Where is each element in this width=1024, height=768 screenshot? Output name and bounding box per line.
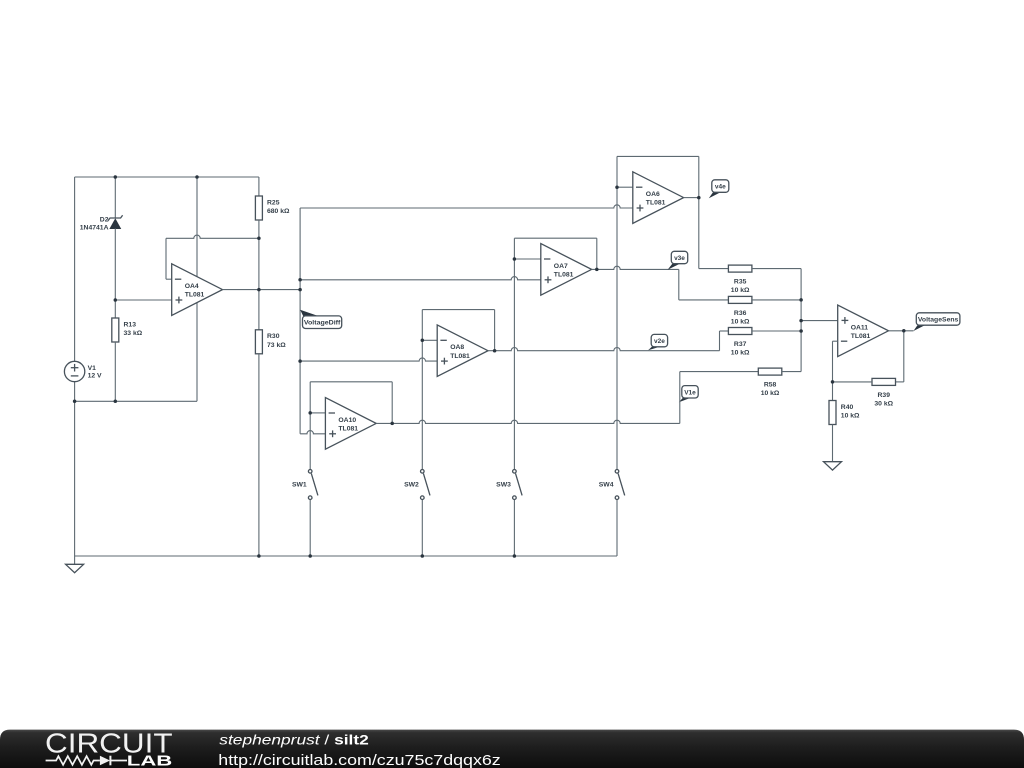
wire switch to rail [616,500,618,557]
zener diode D2 [108,215,123,221]
resistor R37 [728,328,752,335]
wire R58 to node [782,371,801,373]
svg-text:10 kΩ: 10 kΩ [841,412,860,419]
junction [73,400,77,404]
svg-text:SW1: SW1 [292,481,307,488]
wire vertical x197 [196,177,198,401]
svg-text:TL081: TL081 [338,425,358,432]
junction [298,288,302,292]
wire to R58 [680,371,759,373]
wire OA11 plus input [801,320,838,322]
svg-text:R58: R58 [764,382,777,389]
wire top rail [75,176,259,178]
wire OA10 fb top [310,381,392,383]
wire D2 to R13 [114,229,116,319]
junction [308,411,312,415]
ground left [66,564,84,572]
wire OA4 minus stub [166,278,172,280]
svg-text:TL081: TL081 [185,292,205,299]
wire OA7 minus stub [514,258,540,260]
switch SW3 [513,470,517,474]
switch SW2 [421,470,425,474]
wire OA7 fb right [596,238,598,269]
wire R25 top [258,177,260,196]
wire OA8 minus stub [422,339,437,341]
svg-text:OA7: OA7 [554,263,568,270]
svg-text:OA4: OA4 [185,283,199,290]
wire R13 to bottom loop [114,342,116,401]
junction [421,339,425,343]
wire R36 to node [752,299,801,301]
wire V1e corner up [679,372,681,424]
svg-text:OA11: OA11 [851,324,869,331]
junction [195,175,199,179]
resistor R39 [872,378,896,385]
wire OA8 output / v2e line [488,348,720,351]
wire OA10 fb right [391,382,393,424]
wire OA6 fb top [617,155,699,157]
wire OA11 minus down to R40 [832,341,834,400]
wire OA10 minus stub [310,412,325,414]
voltage source V1 [64,361,84,381]
wire to R37 [720,330,729,332]
junction [697,196,701,200]
wire VoltageDiff vertical [299,208,301,434]
svg-text:R35: R35 [734,279,747,286]
svg-text:TL081: TL081 [851,333,871,340]
junction [308,554,312,558]
wire R39 feedback right [903,331,905,382]
wire R40 to ground [832,425,834,462]
resistor R58 [758,368,782,375]
wire OA7 output / v3e line [592,266,679,269]
wire to OA7 plus [300,277,541,280]
svg-text:stephenprust / silt2: stephenprust / silt2 [219,732,369,748]
junction [114,400,118,404]
op-amp OA8 [437,325,488,377]
svg-text:SW4: SW4 [599,481,614,488]
svg-text:R25: R25 [267,199,280,206]
svg-text:SW2: SW2 [404,481,419,488]
resistor R40 [829,401,836,425]
svg-text:R36: R36 [734,310,747,317]
svg-text:30 kΩ: 30 kΩ [874,400,893,407]
svg-text:33 kΩ: 33 kΩ [124,330,143,337]
node VoltageDiff flag [300,310,317,319]
junction [595,268,599,272]
wire left rail upper [74,177,76,361]
svg-text:v2e: v2e [654,338,665,345]
resistor R13 [112,318,119,342]
wire v2e corner up [719,331,721,351]
svg-text:TL081: TL081 [554,271,574,278]
wire OA11 output [889,330,914,332]
junction [114,175,118,179]
junction [831,380,835,384]
node v4e flag [709,191,721,198]
svg-text:10 kΩ: 10 kΩ [731,287,750,294]
wire OA4 feedback left [165,238,167,279]
svg-text:V1: V1 [88,365,97,372]
op-amp OA11 [838,305,889,357]
wire OA6 fb left / SW4 upper [616,156,618,469]
svg-text:LAB: LAB [127,753,173,768]
wire bottom rail [75,555,617,557]
resistor R30 [255,330,262,354]
wire V1 bottom loop [75,400,197,402]
svg-text:OA6: OA6 [646,191,660,198]
wire to D2 [114,177,116,218]
svg-text:SW3: SW3 [496,481,511,488]
wire OA10 fb left / SW1 upper [309,382,311,470]
svg-text:R37: R37 [734,341,747,348]
junction [513,554,517,558]
junction [513,257,517,261]
op-amp OA6 [633,172,684,224]
svg-text:OA10: OA10 [338,417,356,424]
junction [615,185,619,189]
wire to R35 [699,268,729,270]
wire OA6 output [684,197,699,199]
wire OA8 fb top [422,309,494,311]
wire R25 to R30 [258,220,260,330]
junction [257,288,261,292]
wire to R36 [679,299,729,301]
wire OA7 fb left / SW3 upper [513,238,515,469]
svg-text:1N4741A: 1N4741A [80,225,109,232]
junction [421,554,425,558]
junction [257,237,261,241]
wire OA10 output / V1e line [376,420,680,423]
ground right [824,462,842,470]
svg-text:680 kΩ: 680 kΩ [267,208,290,215]
svg-text:10 kΩ: 10 kΩ [731,318,750,325]
junction [298,278,302,282]
svg-text:http://circuitlab.com/czu75c7d: http://circuitlab.com/czu75c7dqqx6z [218,753,500,768]
svg-text:V1e: V1e [684,389,696,396]
junction [298,359,302,363]
wire ground stub left [74,556,76,564]
svg-text:VoltageDiff: VoltageDiff [304,320,341,327]
wire to OA8 plus [300,358,437,361]
wire OA6 fb right / to R35 [698,156,700,268]
wire OA8 fb left / SW2 upper [421,310,423,470]
junction [257,554,261,558]
svg-text:R40: R40 [841,404,854,411]
wire OA11 minus stub [833,340,838,342]
wire R30 to rail [258,354,260,556]
wire R37 to node [752,330,801,332]
svg-text:v4e: v4e [715,184,726,191]
wire OA7 fb top [514,237,596,239]
svg-text:10 kΩ: 10 kΩ [761,390,780,397]
svg-text:12 V: 12 V [88,373,102,380]
wire R35 to node [752,268,801,270]
svg-text:TL081: TL081 [450,353,470,360]
wire OA4 feedback top [166,235,259,238]
wire OA4 output [223,289,301,291]
svg-text:R39: R39 [878,392,891,399]
wire OA4 plus input [115,299,171,301]
junction [114,298,118,302]
wire R39 left [833,381,873,383]
node V1e flag [679,397,691,403]
wire switch to rail [513,500,515,557]
CircuitLab logo resistor-diode glyph [46,756,100,765]
svg-text:R30: R30 [267,333,280,340]
op-amp OA10 [325,398,376,450]
junction [799,319,803,323]
node v3e flag [668,262,681,270]
wire v3e corner down [678,269,680,300]
svg-text:TL081: TL081 [646,200,666,207]
resistor R25 [255,196,262,220]
wire OA8 fb right [494,310,496,351]
junction [799,329,803,333]
switch SW1 [308,470,312,474]
node v2e flag [648,345,660,350]
svg-text:D2: D2 [100,216,109,223]
svg-text:R13: R13 [124,321,137,328]
resistor R35 [728,265,752,272]
junction [493,349,497,353]
wire right node vertical [800,269,802,372]
wire OA6 minus stub [617,186,633,188]
wire left rail lower [74,382,76,556]
svg-text:OA8: OA8 [450,344,464,351]
svg-text:10 kΩ: 10 kΩ [731,350,750,357]
wire R39 to corner [896,381,904,383]
switch SW4 [615,470,619,474]
wire to OA6 plus [300,205,633,208]
op-amp OA4 [172,264,223,316]
resistor R36 [728,296,752,303]
svg-text:VoltageSens: VoltageSens [918,317,959,324]
svg-text:73 kΩ: 73 kΩ [267,342,286,349]
wire to OA10 plus [300,431,325,434]
wire switch to rail [421,500,423,557]
op-amp OA7 [541,244,592,296]
junction [390,422,394,426]
junction [799,298,803,302]
wire switch to rail [309,500,311,557]
svg-text:v3e: v3e [674,255,685,262]
junction [902,329,906,333]
node VoltageSens flag [913,324,925,331]
